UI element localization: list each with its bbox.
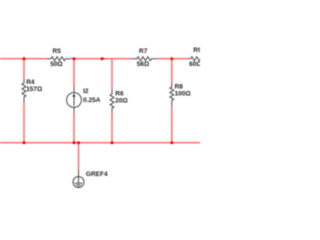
svg-text:R7: R7: [139, 48, 148, 55]
svg-text:20Ω: 20Ω: [115, 98, 127, 105]
svg-text:R4: R4: [26, 79, 35, 86]
svg-text:50Ω: 50Ω: [50, 61, 62, 68]
svg-text:0.25A: 0.25A: [83, 97, 101, 104]
svg-text:GREF4: GREF4: [86, 171, 108, 178]
svg-text:R5: R5: [53, 48, 62, 55]
svg-text:157Ω: 157Ω: [26, 86, 42, 93]
svg-text:60Ω: 60Ω: [189, 61, 200, 68]
svg-text:56Ω: 56Ω: [137, 61, 149, 68]
svg-text:R9: R9: [193, 47, 200, 54]
svg-text:R6: R6: [115, 90, 124, 97]
svg-text:I2: I2: [83, 88, 89, 95]
svg-text:100Ω: 100Ω: [175, 90, 191, 97]
